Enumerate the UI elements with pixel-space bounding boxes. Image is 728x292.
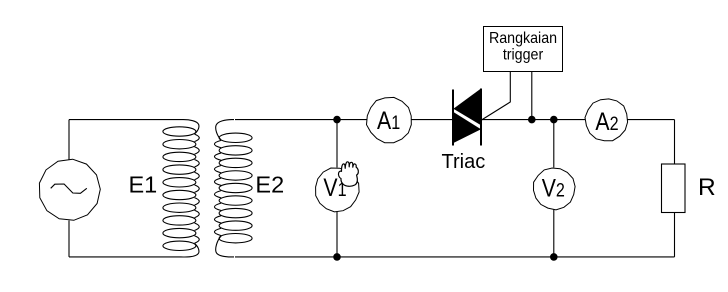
svg-text:Triac: Triac (442, 151, 486, 173)
svg-text:R: R (698, 174, 716, 201)
svg-text:E1: E1 (129, 172, 158, 198)
svg-text:Rangkaian: Rangkaian (489, 31, 557, 48)
svg-text:trigger: trigger (503, 47, 543, 64)
svg-text:E2: E2 (255, 172, 284, 198)
